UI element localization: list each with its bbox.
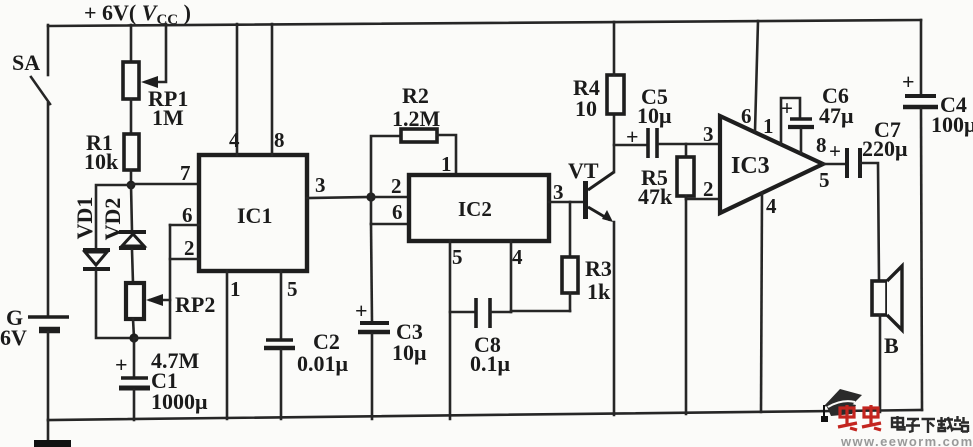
capacitor C4 100u xyxy=(902,69,973,137)
pin 2 label IC3 xyxy=(703,177,714,201)
resistor R1 xyxy=(84,130,139,174)
watermark text chongchong xyxy=(838,405,881,430)
svg-text:5: 5 xyxy=(819,168,830,192)
potentiometer RP2 4.7M xyxy=(126,283,215,373)
svg-text:0.01μ: 0.01μ xyxy=(297,351,349,376)
svg-text:47μ: 47μ xyxy=(819,103,854,128)
op-amp IC2 xyxy=(409,175,549,241)
svg-text:2: 2 xyxy=(184,236,195,260)
capacitor C1 1000u xyxy=(115,352,208,414)
svg-text:8: 8 xyxy=(816,133,827,157)
svg-text:47k: 47k xyxy=(638,184,673,209)
wire VD2 to RP2 xyxy=(132,250,133,283)
svg-text:10μ: 10μ xyxy=(637,103,672,128)
svg-text:220μ: 220μ xyxy=(862,136,908,161)
op-amp IC1 xyxy=(199,155,307,271)
svg-text:2: 2 xyxy=(703,177,714,201)
wire switch to battery xyxy=(47,103,50,317)
svg-text:R3: R3 xyxy=(585,256,612,281)
capacitor C5 10u xyxy=(626,84,672,158)
svg-text:IC3: IC3 xyxy=(731,153,770,179)
svg-text:RP2: RP2 xyxy=(175,292,215,317)
wire C4 to bottom rail xyxy=(921,109,922,410)
svg-text:1: 1 xyxy=(230,277,241,301)
svg-text:+: + xyxy=(902,69,915,94)
svg-text:www.eeworm.com: www.eeworm.com xyxy=(840,434,973,447)
wire RP2 bottom xyxy=(133,319,134,338)
wire top supply rail xyxy=(48,20,921,26)
wire VT collector to R4 xyxy=(613,114,616,172)
svg-text:+: + xyxy=(115,352,128,377)
wire IC1 pin3 to node xyxy=(307,173,371,198)
ground xyxy=(34,420,71,447)
wire R5 to IC3 pin2 xyxy=(686,198,720,201)
capacitor C3 10u xyxy=(355,298,427,365)
wire IC2 pin5 to bottom rail xyxy=(450,241,463,419)
wire node down to pin6 tap xyxy=(370,197,373,224)
svg-text:4: 4 xyxy=(766,194,777,218)
wire IC3 pin4 to bottom rail xyxy=(761,193,777,412)
svg-text:4: 4 xyxy=(229,128,240,152)
switch SA xyxy=(12,50,50,104)
wire VT emitter to bottom rail xyxy=(613,222,616,415)
wire R1 to node xyxy=(130,170,133,185)
wire wiper column pin6 pin2 xyxy=(134,225,170,338)
svg-text:0.1μ: 0.1μ xyxy=(470,351,511,376)
wire pin4 row to R3 bottom xyxy=(511,310,570,313)
wire C4 column top xyxy=(920,20,923,95)
wire bottom rail xyxy=(48,410,922,420)
watermark text dianzixiazaizhan xyxy=(892,416,969,433)
svg-text:1000μ: 1000μ xyxy=(151,389,208,414)
wire collector to C5 xyxy=(614,144,646,147)
speaker B xyxy=(872,266,902,358)
pin 7 label xyxy=(180,161,191,185)
wire speaker to bottom rail xyxy=(879,315,882,412)
battery G 6V xyxy=(0,305,69,350)
svg-text:6V: 6V xyxy=(0,325,27,350)
svg-text:VD1: VD1 xyxy=(72,197,97,240)
svg-text:1k: 1k xyxy=(587,279,611,304)
svg-text:10k: 10k xyxy=(84,149,119,174)
node junction C1 xyxy=(129,333,138,342)
wire IC1 pin4 xyxy=(229,24,240,155)
resistor R4 10 xyxy=(573,22,624,121)
capacitor C2 0.01u xyxy=(264,329,349,376)
node junction IC1 pin3 xyxy=(366,192,375,201)
diode VD1 xyxy=(72,197,110,269)
node junction R1/pin7 xyxy=(127,181,136,190)
capacitor C8 0.1u xyxy=(450,298,511,376)
wire C5 to IC3 pin3 xyxy=(659,143,720,146)
wire IC1 pin5 to C2 xyxy=(281,271,298,339)
pin 5 label xyxy=(819,168,830,192)
wire node to VD1 xyxy=(96,185,131,249)
wire VD1 to bottom node wire xyxy=(96,271,134,338)
svg-text:5: 5 xyxy=(287,277,298,301)
wire IC1 pin2 stub xyxy=(170,236,199,260)
svg-text:VD2: VD2 xyxy=(100,198,125,241)
wire IC1 pin8 xyxy=(272,24,285,155)
wire IC3 pin1 bracket xyxy=(763,98,800,144)
wire node up to R2 xyxy=(371,136,401,197)
resistor R5 47k xyxy=(638,144,694,209)
svg-text:IC1: IC1 xyxy=(237,203,272,228)
wire R2 to IC2 pin1 xyxy=(437,135,456,176)
wire node column to C3 xyxy=(371,224,372,322)
wire battery to bottom rail xyxy=(47,332,50,420)
svg-text:6: 6 xyxy=(392,200,403,224)
svg-text:B: B xyxy=(884,333,899,358)
svg-text:+: + xyxy=(829,139,841,163)
capacitor C7 220u xyxy=(829,117,908,178)
svg-text:3: 3 xyxy=(553,180,564,204)
svg-text:2: 2 xyxy=(391,174,402,198)
wire IC3 pin6 to rail xyxy=(741,21,758,131)
svg-text:1M: 1M xyxy=(152,105,184,130)
svg-text:6: 6 xyxy=(741,104,752,128)
wire node to VD2 xyxy=(131,185,132,231)
wire IC3 output to C7 xyxy=(823,163,845,166)
svg-text:VT: VT xyxy=(568,158,599,183)
resistor R3 1k xyxy=(562,202,612,311)
wire IC1 pin6 stub xyxy=(170,203,199,227)
wire IC2 pin4 down xyxy=(511,241,523,312)
svg-text:10μ: 10μ xyxy=(392,340,427,365)
wire IC1 pin1 to bottom rail xyxy=(227,271,241,419)
wire node to C1 xyxy=(133,338,136,377)
svg-text:R2: R2 xyxy=(402,83,429,108)
svg-text:5: 5 xyxy=(452,245,463,269)
wire IC2 pin3 to VT base xyxy=(549,180,583,204)
wire C2 to bottom rail xyxy=(280,350,283,419)
node +6V(Vcc) label xyxy=(84,0,191,28)
capacitor C6 47u xyxy=(781,83,854,128)
svg-text:7: 7 xyxy=(180,161,191,185)
wire C3 to bottom rail xyxy=(371,334,374,419)
wire C7 to speaker xyxy=(861,163,879,281)
svg-text:10: 10 xyxy=(575,96,597,121)
wire R5 column to bottom rail xyxy=(685,199,688,414)
svg-text:3: 3 xyxy=(703,122,714,146)
watermark cap icon xyxy=(821,389,862,422)
svg-text:+: + xyxy=(781,96,793,120)
svg-text:1: 1 xyxy=(763,114,774,138)
pin 8 label xyxy=(816,133,827,157)
wire left rail upper xyxy=(47,25,50,75)
svg-text:6: 6 xyxy=(182,203,193,227)
pin 3 label IC3 xyxy=(703,122,714,146)
diode VD2 xyxy=(100,198,146,248)
wire to IC2 pin6 xyxy=(371,200,409,224)
watermark url xyxy=(840,434,973,447)
wire C6 to pin8 xyxy=(800,129,803,153)
svg-text:SA: SA xyxy=(12,50,40,75)
svg-text:100μ: 100μ xyxy=(931,112,973,137)
svg-text:4: 4 xyxy=(512,245,523,269)
transistor VT xyxy=(568,158,614,222)
wire node to IC1 pin7 xyxy=(131,183,199,186)
wire node to IC2 pin2 xyxy=(371,174,409,198)
svg-text:8: 8 xyxy=(274,128,285,152)
svg-text:3: 3 xyxy=(315,173,326,197)
svg-text:1: 1 xyxy=(441,152,452,176)
svg-text:IC2: IC2 xyxy=(458,197,492,221)
svg-text:1.2M: 1.2M xyxy=(392,106,441,131)
svg-text:+: + xyxy=(355,298,368,323)
potentiometer RP1 xyxy=(123,24,188,130)
wire C1 to bottom rail xyxy=(133,390,136,420)
resistor R2 1.2M xyxy=(392,83,441,142)
op-amp IC3 xyxy=(720,116,823,213)
wire RP1 to R1 xyxy=(130,99,133,134)
